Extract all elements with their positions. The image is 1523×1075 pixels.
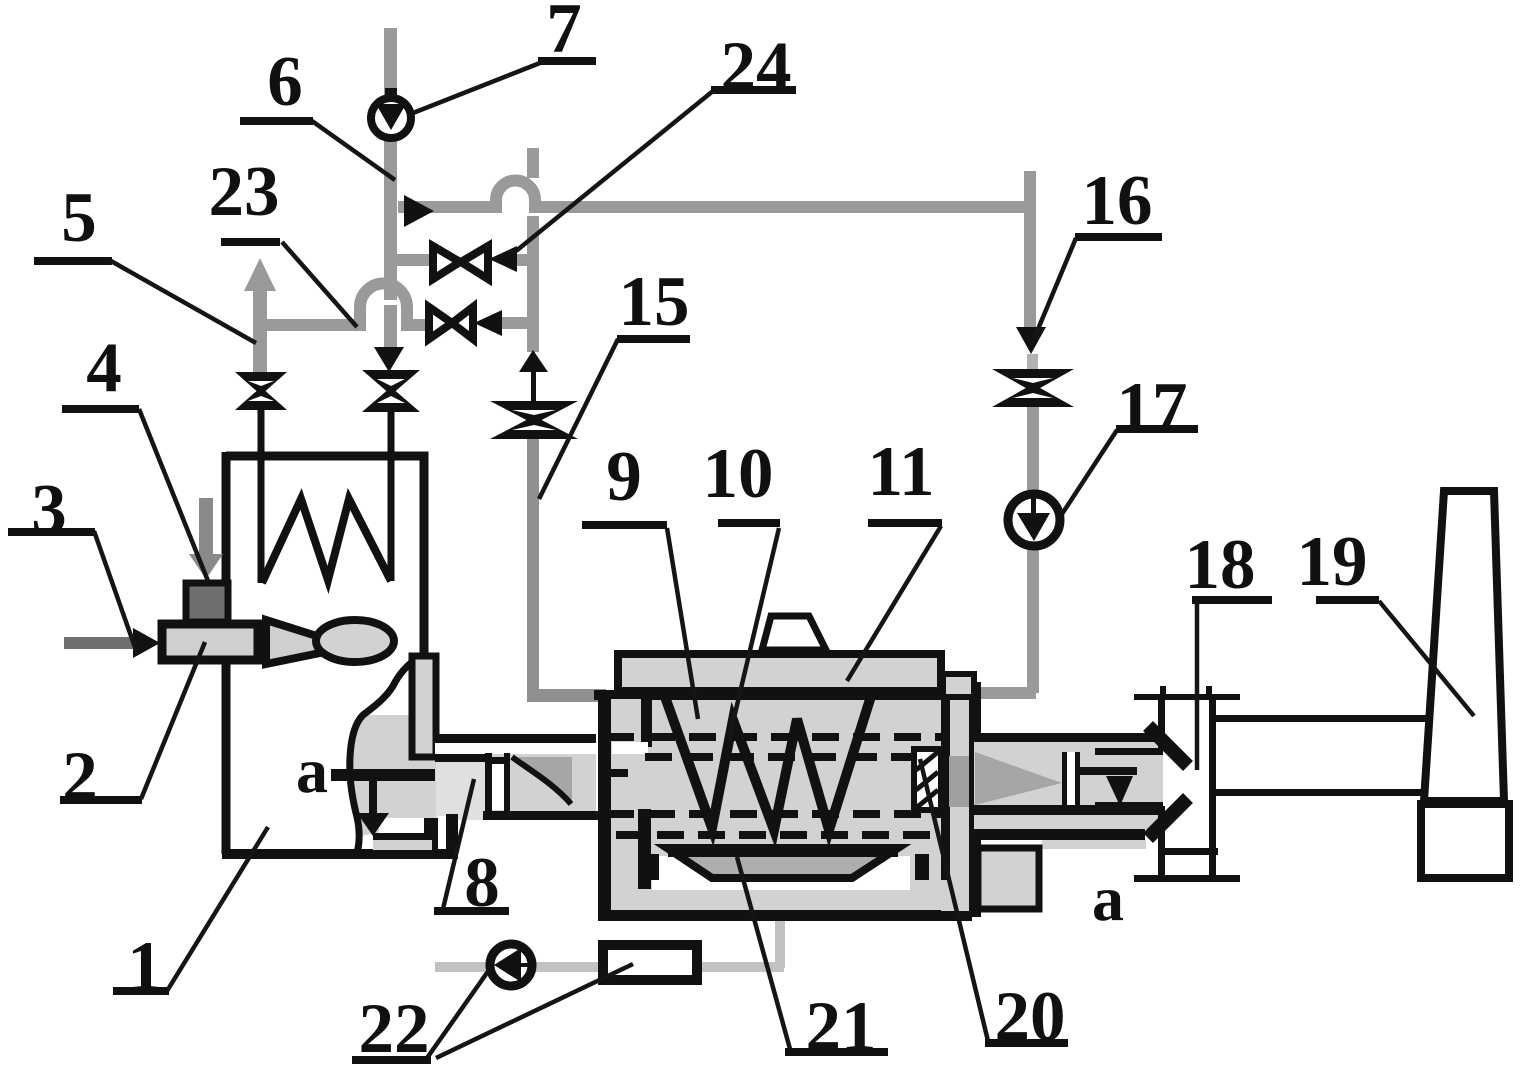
valve 15 on vapour riser <box>490 401 578 439</box>
label 11 <box>847 433 942 681</box>
label 24 <box>516 28 796 251</box>
furnace 1 (combustion chamber box) <box>226 456 424 654</box>
label 8 <box>434 779 509 922</box>
discharge screw cone <box>975 752 1062 805</box>
label 3 <box>8 471 137 653</box>
dashed screw envelope line 3 <box>607 810 950 818</box>
arrow flow right on main line <box>404 195 434 227</box>
wire condensate drain line under drum <box>775 878 785 968</box>
fan 8 casing (scroll blob) <box>350 715 436 836</box>
dashed screw envelope line 4 <box>616 831 948 839</box>
feed tube extension inside drum <box>612 742 648 754</box>
label 23 <box>209 153 358 327</box>
wire condensate return line with hump (node 23) <box>260 284 429 326</box>
duct from column to chimney <box>1216 715 1428 722</box>
nozzle 4 (fuel box) <box>186 583 228 622</box>
white pocket under scraper <box>652 856 910 890</box>
cover step box right <box>943 674 974 697</box>
discharge open arrow upper stroke <box>1148 726 1188 766</box>
label 10 <box>703 435 781 739</box>
feeder bottom wall <box>483 811 598 820</box>
label 15 <box>539 263 690 499</box>
condensate tank box <box>603 945 697 980</box>
drum shell right wall <box>969 682 981 917</box>
label 17 <box>1062 369 1198 514</box>
shaft block entering support column <box>1095 748 1163 808</box>
svg-text:9: 9 <box>606 438 642 516</box>
dashed screw envelope line 1 <box>607 733 963 741</box>
label 18 <box>1185 526 1273 770</box>
chimney 19 base <box>1421 804 1509 878</box>
label 9 <box>582 438 698 719</box>
arrow flow up above valve 15 <box>519 350 548 372</box>
label 19 <box>1297 523 1475 716</box>
valve 16 on feed downcomer <box>992 369 1074 407</box>
valve on riser above furnace (left hourglass) <box>235 372 287 410</box>
feed tube bottom wall partial <box>435 754 490 762</box>
section marker a-a left (bar and down arrow) <box>331 769 435 781</box>
svg-text:10: 10 <box>703 435 774 513</box>
svg-text:2: 2 <box>62 738 98 816</box>
discharge level mark (T with down arrow) <box>1077 767 1137 775</box>
wire coil drop left (from valve 5 into furnace) <box>258 409 265 583</box>
svg-text:6: 6 <box>267 43 303 121</box>
seal 20 hatched block <box>914 749 941 810</box>
label 20 <box>920 759 1068 1056</box>
label 4 <box>62 329 208 581</box>
arrow flow down above valve 16 <box>1016 327 1046 354</box>
pump 17 (circulation pump) <box>1008 494 1060 546</box>
svg-text:24: 24 <box>721 28 792 106</box>
discharge tube bottom wall <box>974 829 1145 840</box>
wire short stub lower bypass valve right <box>500 317 529 329</box>
chimney 19 stack <box>1424 491 1504 801</box>
bearing block below discharge tube <box>978 848 1039 909</box>
support bar right under scraper <box>915 854 929 880</box>
label 5 <box>34 179 256 343</box>
fuel feed arrow into nozzle 4 <box>199 498 213 556</box>
material wedge in feeder <box>512 757 572 803</box>
svg-text:a: a <box>1092 863 1124 934</box>
drum right inner wall <box>941 697 950 880</box>
support column 18 top flange <box>1134 694 1240 700</box>
fan pedestal blocks <box>424 818 438 850</box>
label 1 <box>113 827 268 1006</box>
feed tube top wall <box>435 734 596 743</box>
screw feeder housing gray <box>436 762 490 820</box>
wire steam pipe below pump 7 down to furnace coil valve <box>384 140 397 300</box>
valve 6 on steam drop (central hourglass) <box>362 370 420 412</box>
discharge open arrow lower stroke <box>1148 798 1188 838</box>
burner 2 cone <box>266 620 320 664</box>
svg-text:5: 5 <box>61 179 97 257</box>
pump 7 (fan on steam line) <box>385 88 397 98</box>
label 7 <box>413 0 596 113</box>
dashed screw envelope line 2 <box>645 753 955 761</box>
flame inside furnace <box>316 620 394 662</box>
pump 22 (condensate pump) <box>490 944 532 986</box>
wire steam pipe above pump 7 <box>384 28 397 96</box>
label 21 <box>737 857 888 1066</box>
gland dark block <box>949 756 969 807</box>
drum shell bottom edge <box>600 910 972 921</box>
drum left end cap <box>611 699 642 908</box>
air inlet arrow 3 <box>64 637 135 649</box>
wire vapour riser pipe from drum (node 15 line) <box>527 148 539 178</box>
discharge slot <box>1062 752 1067 806</box>
drum shell top edge <box>594 690 973 700</box>
discharge tube lower gray band <box>974 815 1159 829</box>
wire coil drop right (from valve 6 into furnace) <box>388 412 395 581</box>
drum 9 shell interior <box>603 695 973 913</box>
svg-text:11: 11 <box>867 433 934 511</box>
label 2 <box>60 642 205 816</box>
wire main hot-steam line to dryer (with crossover hump) <box>398 181 1030 208</box>
feed tube interior <box>435 743 596 754</box>
svg-text:15: 15 <box>619 263 690 341</box>
discharge tube inner bottom wall <box>974 805 1160 815</box>
screw 10 flights zigzag <box>664 693 872 830</box>
svg-text:3: 3 <box>31 471 67 549</box>
wire exhaust riser with up arrow (node 5) <box>244 258 276 291</box>
drum shell left wall <box>598 690 611 921</box>
arrow flow down into coil valve <box>374 347 404 372</box>
svg-text:18: 18 <box>1185 526 1256 604</box>
support column 18 walls <box>1158 700 1165 750</box>
discharge tube interior <box>974 742 1159 805</box>
discharge tube top wall <box>974 733 1159 742</box>
wire short stub upper bypass valve left <box>395 254 433 266</box>
valve 23 lower bypass (bowtie) <box>429 307 473 339</box>
wire right downcomer pipe to valve 16 and pump 17 <box>1024 171 1036 213</box>
burner 2 barrel <box>162 624 258 660</box>
arrow flow left into upper bypass valve <box>489 246 517 272</box>
drum 11 top cover <box>618 654 941 691</box>
drum bottom plate <box>611 890 969 908</box>
label 16 <box>1031 162 1162 346</box>
fan 8 outlet duct (vertical) <box>412 656 436 757</box>
scraper 21 tray at drum bottom <box>667 848 898 878</box>
label 22 <box>352 964 633 1068</box>
label 6 <box>240 43 395 180</box>
svg-text:19: 19 <box>1297 523 1368 601</box>
support bar left under scraper <box>645 854 659 880</box>
drum right end gray filler <box>941 683 969 911</box>
support column 18 bottom flange <box>1159 848 1218 855</box>
svg-text:a: a <box>296 735 328 806</box>
arrow flow left into lower bypass valve <box>474 310 502 336</box>
svg-text:4: 4 <box>86 329 122 407</box>
svg-text:23: 23 <box>209 153 280 231</box>
wire short stub upper bypass valve right <box>513 254 529 266</box>
svg-text:16: 16 <box>1082 162 1153 240</box>
drum vent bump on cover <box>762 616 826 650</box>
heating coil zigzag inside furnace 1 <box>262 499 391 583</box>
feeder drop slot <box>485 753 492 817</box>
svg-text:17: 17 <box>1117 369 1188 447</box>
valve 24 upper bypass (bowtie) <box>433 246 488 279</box>
